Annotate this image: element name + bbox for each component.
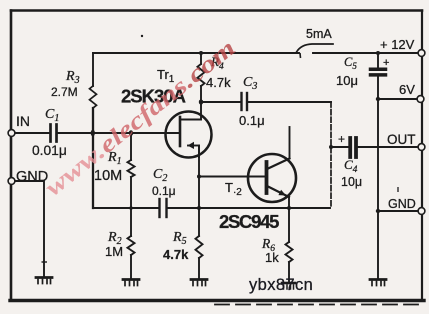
ground below C5 rail [370, 280, 386, 286]
wire collector stub [289, 127, 291, 158]
svg-text:0.1μ: 0.1μ [152, 184, 176, 198]
wire R4 to drain [200, 86, 202, 120]
5mA current arrow [297, 44, 334, 52]
wire drain column / R4 top lead [200, 53, 202, 64]
wire 6V tap [378, 98, 420, 100]
ground below left GND [36, 278, 52, 284]
svg-text:1M: 1M [105, 244, 123, 259]
wire drain node to C3 [201, 101, 241, 103]
wire C5 to 6V node and down to ground [377, 77, 379, 279]
svg-text:IN: IN [16, 113, 30, 129]
wire node A horizontal [93, 207, 159, 209]
svg-text:2SC945: 2SC945 [219, 211, 279, 232]
svg-text:10M: 10M [94, 168, 122, 184]
terminal GND right [418, 208, 425, 215]
svg-text:0.01μ: 0.01μ [32, 143, 67, 158]
capacitor C3 [242, 93, 248, 110]
wire GND right tap [378, 210, 421, 212]
svg-text:4.7k: 4.7k [163, 247, 189, 262]
svg-text:GND: GND [388, 197, 416, 211]
svg-text:+ 12V: + 12V [380, 37, 415, 52]
svg-text:OUT: OUT [387, 132, 416, 147]
terminal OUT [418, 144, 425, 151]
svg-text:2.7M: 2.7M [51, 85, 78, 99]
wire source column [198, 146, 200, 279]
resistor R1 [128, 133, 135, 208]
NPN emitter arrow [278, 190, 286, 196]
ground below R6 [282, 283, 295, 289]
wire C4 to OUT terminal [358, 146, 422, 148]
svg-text:10μ: 10μ [336, 73, 358, 88]
wire gate line from IN [13, 132, 50, 134]
wire top +12V rail [93, 52, 421, 54]
resistor R3 [90, 53, 97, 108]
tick on GND wire [42, 261, 48, 263]
wire C5 top lead [377, 53, 379, 67]
svg-text:+: + [383, 57, 389, 69]
terminal 6V [417, 96, 424, 103]
wire C1 to gate [57, 132, 180, 134]
resistor R4 [198, 64, 205, 86]
resistor R5 [196, 236, 203, 258]
terminal IN [8, 130, 15, 137]
capacitor C4 [350, 138, 356, 157]
transistor Q2 2SC945 [248, 154, 296, 208]
svg-text:+: + [338, 132, 345, 146]
terminal GND left [8, 178, 15, 185]
svg-text:0.1μ: 0.1μ [239, 113, 265, 128]
svg-text:6V: 6V [399, 82, 415, 97]
resistor R2 [128, 208, 135, 279]
wire GND left [13, 181, 44, 277]
arrowhead 5mA [299, 53, 302, 58]
svg-text:1k: 1k [265, 250, 279, 265]
JFET gate arrow [188, 142, 195, 149]
svg-text:5mA: 5mA [306, 27, 332, 41]
resistor R6 [286, 208, 293, 283]
wire base Tr1 source to Tr2 [199, 176, 266, 178]
svg-text:10μ: 10μ [341, 175, 362, 189]
speck near GND label [397, 187, 399, 192]
wire bootstrap vertical [330, 102, 332, 208]
wire R3 to node A (crosses gate line) [92, 108, 94, 208]
wire C3 to corner [247, 101, 331, 103]
terminal +12V [418, 50, 425, 57]
capacitor C1 [51, 125, 57, 142]
capacitor C5 [371, 69, 386, 75]
wire C2 to emitter line [167, 207, 330, 209]
ground below R2 [123, 280, 139, 286]
transistor Q1 2SK30A [166, 112, 212, 158]
wire OUT line [331, 146, 349, 148]
capacitor C2 [160, 199, 167, 217]
svg-text:ybx87cn: ybx87cn [249, 276, 313, 294]
ground below R5 [191, 280, 207, 286]
